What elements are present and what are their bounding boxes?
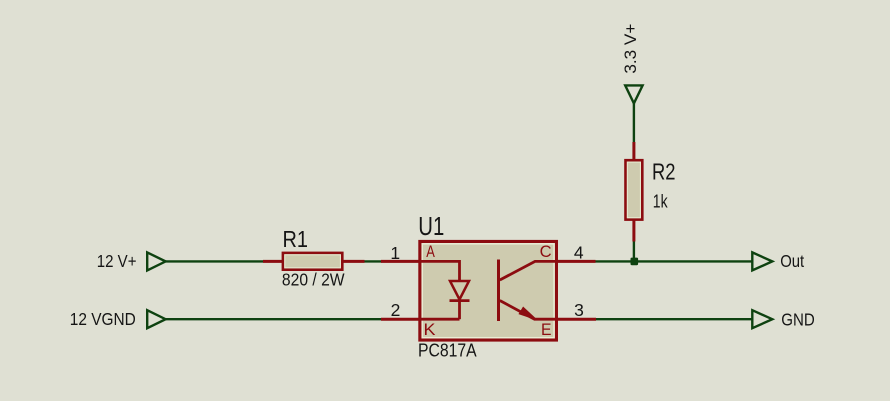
wire 12VGND to U1 pin2 xyxy=(166,318,381,320)
svg-text:K: K xyxy=(424,321,436,339)
wire R1 to U1 pin1 xyxy=(365,260,383,262)
U1 pin 1 stub xyxy=(381,260,420,263)
svg-text:R2: R2 xyxy=(652,159,676,185)
U1 pin 2 stub xyxy=(381,318,420,321)
LED cathode lead xyxy=(421,301,460,320)
svg-text:1: 1 xyxy=(390,243,400,263)
terminal GND xyxy=(752,310,772,328)
svg-text:E: E xyxy=(541,321,552,339)
junction node xyxy=(631,258,639,266)
resistor R1 xyxy=(263,253,365,270)
wire pin3 to GND terminal xyxy=(596,318,752,320)
LED cathode bar xyxy=(450,299,470,302)
wire R2 to junction xyxy=(633,242,635,262)
svg-text:3.3 V+: 3.3 V+ xyxy=(621,24,640,74)
svg-text:820 / 2W: 820 / 2W xyxy=(282,270,345,290)
svg-text:A: A xyxy=(426,243,435,261)
svg-text:3: 3 xyxy=(574,300,584,320)
svg-text:U1: U1 xyxy=(418,213,444,241)
LED diode triangle xyxy=(450,281,469,300)
svg-text:12 V+: 12 V+ xyxy=(97,251,137,271)
wire pin4 to junction xyxy=(596,260,635,262)
svg-text:PC817A: PC817A xyxy=(418,341,477,361)
svg-text:2: 2 xyxy=(391,300,401,320)
svg-text:Out: Out xyxy=(780,251,804,271)
svg-text:1k: 1k xyxy=(653,192,669,212)
U1 pin 3 stub xyxy=(557,318,597,321)
wire junction to Out xyxy=(634,260,752,262)
svg-text:R1: R1 xyxy=(283,226,309,252)
terminal 12 VGND xyxy=(147,310,165,328)
phototransistor base line xyxy=(497,260,500,322)
terminal Out xyxy=(752,252,772,270)
svg-text:C: C xyxy=(540,243,552,261)
U1 pin 4 stub xyxy=(557,260,596,263)
svg-text:GND: GND xyxy=(781,309,815,329)
optocoupler U1 body xyxy=(420,242,557,341)
terminal 3.3 V+ xyxy=(625,85,642,103)
LED inside U1 anode lead xyxy=(421,260,460,281)
phototransistor collector xyxy=(500,261,556,280)
terminal 12 V+ xyxy=(147,252,165,270)
svg-text:12 VGND: 12 VGND xyxy=(70,309,136,329)
wire 12V+ to R1 xyxy=(166,260,263,262)
resistor R2 xyxy=(626,142,643,242)
emitter arrowhead xyxy=(519,307,536,319)
phototransistor emitter xyxy=(500,301,556,320)
svg-text:4: 4 xyxy=(574,243,584,263)
wire 3.3V+ to R2 xyxy=(633,103,635,142)
